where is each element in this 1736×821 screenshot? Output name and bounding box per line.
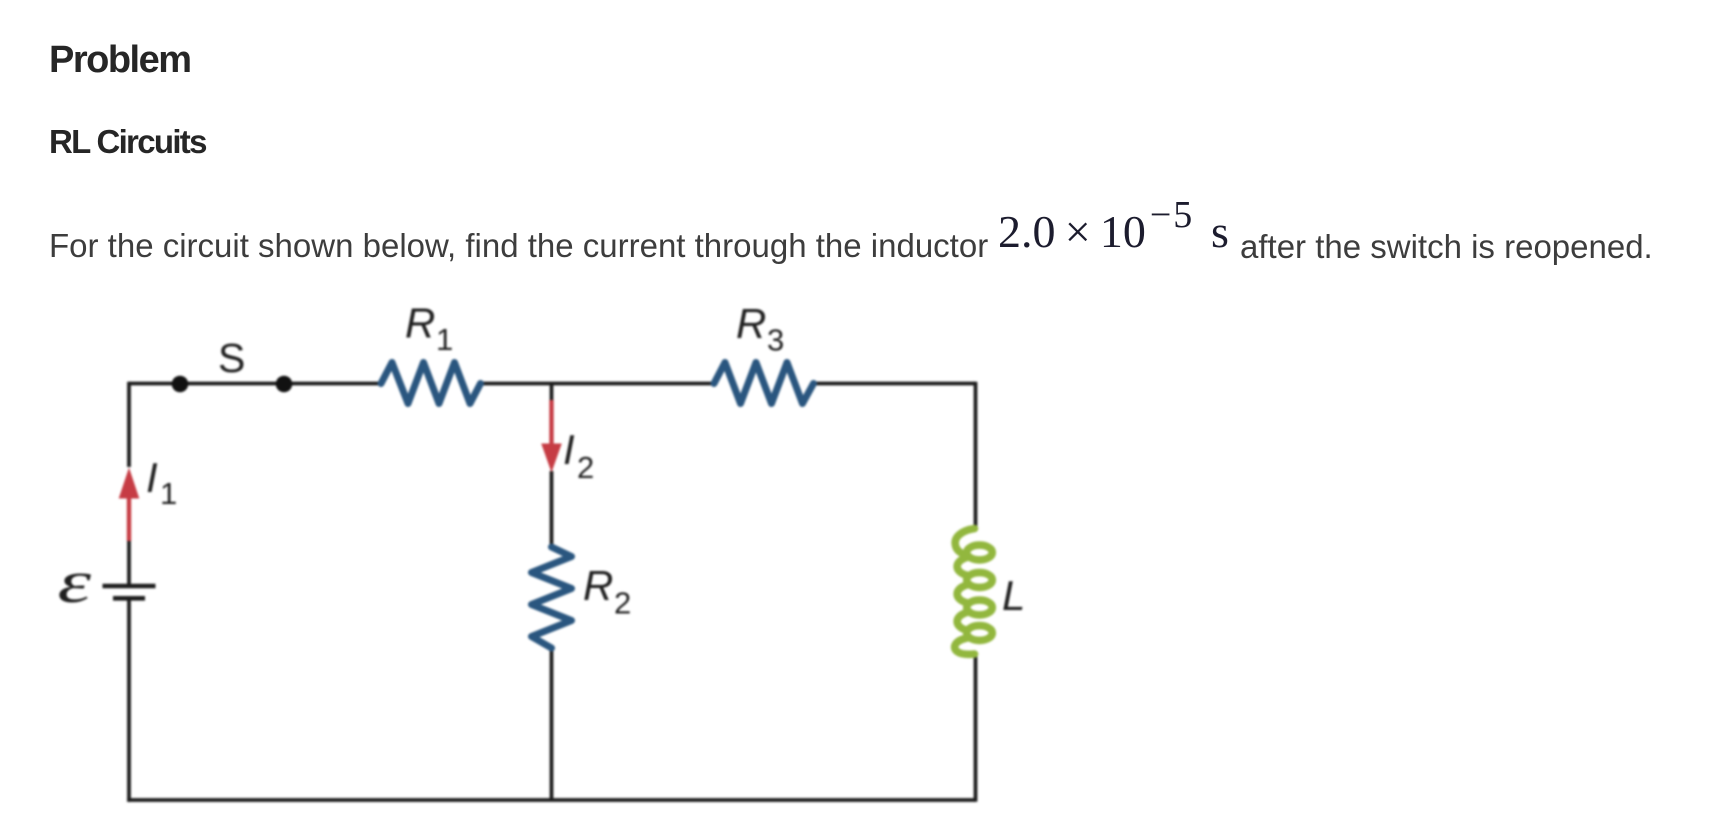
current arrow I1 shaft xyxy=(127,497,131,541)
wire top from R3 to right corner xyxy=(814,382,976,386)
svg-text:R: R xyxy=(583,562,613,609)
math s xyxy=(1211,209,1229,255)
current arrow I2 head xyxy=(541,444,562,473)
current arrow I2 shaft xyxy=(549,400,553,444)
resistor R3 xyxy=(714,363,814,404)
switch S contact dot right xyxy=(276,376,293,393)
svg-text:R: R xyxy=(405,300,435,347)
svg-text:I: I xyxy=(563,426,575,473)
wire top from R1 to R3 xyxy=(481,382,715,386)
svg-text:2: 2 xyxy=(577,450,594,485)
wire right vertical upper xyxy=(974,382,978,529)
svg-text:1: 1 xyxy=(436,322,453,357)
wire left vertical middle xyxy=(127,540,131,584)
wire right vertical lower xyxy=(974,654,978,802)
wire left vertical lower xyxy=(127,600,131,802)
resistor R1 xyxy=(381,363,481,404)
svg-text:I: I xyxy=(146,454,158,501)
subheading RL Circuits xyxy=(49,125,206,158)
wire top from left corner to R1 xyxy=(129,382,381,386)
heading Problem xyxy=(49,41,191,79)
svg-text:R: R xyxy=(736,300,766,347)
wire middle vertical upper xyxy=(550,384,554,403)
switch S contact dot left xyxy=(172,376,189,393)
resistor R2 xyxy=(532,547,572,648)
svg-text:S: S xyxy=(218,335,245,381)
paragraph part 1 xyxy=(49,229,988,262)
battery EMF source plates xyxy=(103,586,156,598)
math 2.0 x 10^-5 xyxy=(998,209,1194,258)
inductor L coil xyxy=(955,529,993,655)
svg-text:1: 1 xyxy=(160,476,177,511)
svg-text:2: 2 xyxy=(614,586,631,621)
wire bottom xyxy=(127,798,975,802)
svg-text:ε: ε xyxy=(58,548,92,615)
current arrow I1 head xyxy=(119,468,140,499)
wire left vertical upper xyxy=(127,382,131,467)
svg-text:L: L xyxy=(1002,572,1025,619)
paragraph part 2 xyxy=(1240,230,1653,263)
wire middle vertical between arrow and R2 xyxy=(550,471,554,547)
svg-text:3: 3 xyxy=(767,323,784,358)
wire middle vertical lower xyxy=(550,648,554,800)
